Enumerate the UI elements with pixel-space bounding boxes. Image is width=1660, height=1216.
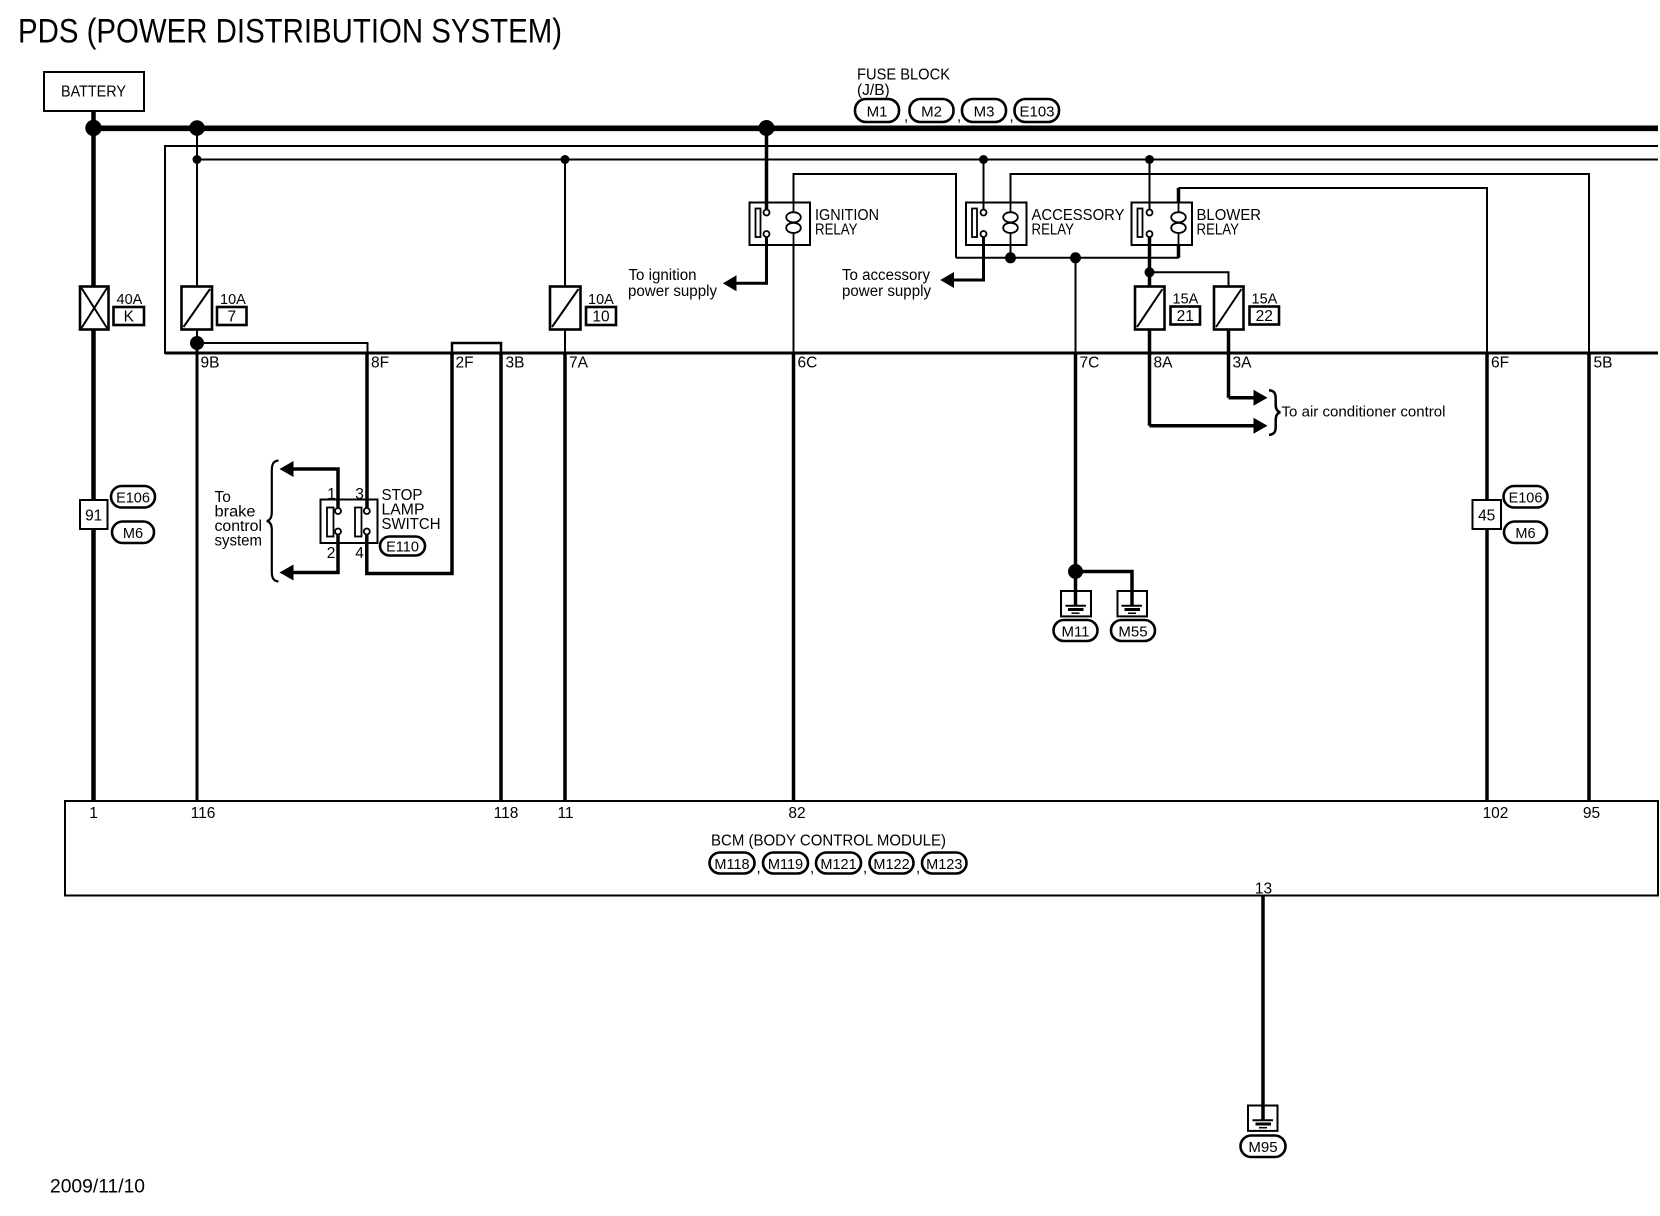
- svg-text:power supply: power supply: [842, 283, 931, 300]
- wire accessory coil bottom to ground line: [1010, 245, 1012, 258]
- brace brake control: [267, 461, 279, 582]
- wire inner line to accessory relay switch: [983, 160, 985, 210]
- svg-text:E103: E103: [1019, 104, 1054, 121]
- wire 8A to air conditioner: [1150, 424, 1256, 428]
- fuse 10 10A: [550, 287, 616, 330]
- wire inner line to blower relay switch: [1149, 160, 1151, 210]
- svg-text:,: ,: [1010, 108, 1014, 125]
- node inner line / fuse10 tap: [561, 155, 570, 164]
- ground M11: [1061, 591, 1091, 616]
- svg-text:M11: M11: [1061, 623, 1089, 640]
- node inner line / accessory relay tap: [979, 155, 988, 164]
- svg-text:To accessory: To accessory: [842, 267, 930, 284]
- svg-text:95: 95: [1583, 805, 1600, 822]
- svg-text:SWITCH: SWITCH: [382, 516, 441, 533]
- connector M55: [1111, 620, 1155, 641]
- wire bus to ignition relay switch: [765, 131, 769, 209]
- wire branch to fuse 22: [1150, 272, 1229, 286]
- connector M123: [916, 853, 967, 877]
- connector M6 (right): [1504, 522, 1547, 544]
- connector M3: [957, 99, 1006, 125]
- wire 2F-3B jumper staple: [452, 343, 501, 353]
- connector M2: [904, 99, 954, 125]
- fuse 22 15A: [1214, 287, 1279, 330]
- svg-text:13: 13: [1255, 881, 1272, 898]
- svg-text:10A: 10A: [588, 292, 614, 308]
- wire 7A column to BCM pin 11: [563, 353, 567, 801]
- svg-text:system: system: [215, 533, 263, 550]
- svg-text:6F: 6F: [1491, 355, 1509, 372]
- arrow to brake (top): [280, 461, 294, 477]
- arrow to ignition power supply: [723, 275, 737, 291]
- svg-text:RELAY: RELAY: [815, 222, 858, 239]
- wire 8A column: [1148, 330, 1152, 426]
- wire 9B column: [196, 343, 199, 801]
- svg-text:7: 7: [227, 309, 236, 326]
- connector E106 (right): [1504, 486, 1548, 508]
- svg-text:102: 102: [1483, 805, 1509, 822]
- svg-text:E106: E106: [116, 491, 150, 507]
- connector E110: [380, 537, 425, 556]
- svg-text:M123: M123: [926, 857, 962, 873]
- svg-text:,: ,: [957, 108, 961, 125]
- wire fuse 7 output: [196, 330, 198, 344]
- wire stop lamp pin 1 to brake system: [292, 469, 338, 508]
- connector M11: [1054, 620, 1098, 641]
- wire ignition switch output: [736, 237, 767, 283]
- fuse block box left edge: [164, 145, 166, 354]
- wire relay coil common (ground) line: [956, 257, 1179, 259]
- fuse block box top edge: [165, 145, 1658, 147]
- wire blower switch output to fuses: [1148, 237, 1152, 287]
- label stop lamp switch: [382, 487, 441, 533]
- svg-text:4: 4: [355, 545, 364, 562]
- svg-text:91: 91: [85, 508, 102, 525]
- svg-text:M122: M122: [873, 857, 909, 873]
- svg-text:(J/B): (J/B): [857, 82, 890, 99]
- svg-text:116: 116: [191, 805, 216, 822]
- node inner line start: [193, 155, 202, 164]
- svg-text:10: 10: [592, 309, 610, 326]
- connector M1: [855, 99, 899, 122]
- node fuse 21/22 feed split: [1145, 267, 1155, 277]
- node bus/ignition-relay junction: [759, 120, 775, 136]
- svg-text:,: ,: [904, 108, 908, 125]
- fuse 7 10A: [182, 287, 247, 330]
- svg-text:BCM (BODY CONTROL MODULE): BCM (BODY CONTROL MODULE): [711, 832, 946, 849]
- svg-text:5B: 5B: [1594, 355, 1613, 372]
- svg-text:,: ,: [863, 860, 867, 877]
- fuse block J/B label: [857, 67, 951, 100]
- svg-text:45: 45: [1478, 508, 1495, 525]
- svg-text:3B: 3B: [506, 355, 525, 372]
- connector pin 45 box: [1473, 500, 1502, 529]
- wire to ground M11: [1074, 572, 1078, 606]
- svg-text:BATTERY: BATTERY: [61, 84, 126, 101]
- wire fuse 10 output: [564, 330, 566, 354]
- connector M122: [863, 853, 914, 877]
- svg-text:40A: 40A: [117, 292, 143, 308]
- wire bus to fuse 7: [196, 131, 198, 287]
- relay BLOWER RELAY: [1132, 203, 1262, 246]
- wire 2F column: [367, 353, 452, 574]
- relay ACCESSORY RELAY: [966, 203, 1125, 246]
- label to ignition power supply: [628, 267, 717, 300]
- svg-text:To ignition: To ignition: [629, 267, 697, 284]
- svg-text:M3: M3: [974, 104, 995, 121]
- svg-text:15A: 15A: [1173, 292, 1199, 308]
- svg-text:3: 3: [355, 486, 364, 503]
- wire 7C (inside J/B): [1075, 258, 1077, 353]
- wire battery feed (vertical, battery to fusible link): [91, 111, 96, 287]
- wire battery feed (fusible link to 91): [91, 330, 96, 501]
- label to accessory power supply: [842, 267, 931, 300]
- svg-text:M121: M121: [820, 857, 856, 873]
- connector pin 91 box: [80, 500, 108, 529]
- wire accessory switch output: [953, 237, 984, 280]
- node accessory coil / ground line: [1005, 252, 1016, 263]
- svg-text:8F: 8F: [371, 355, 389, 372]
- wire 8F column: [365, 353, 369, 508]
- wire to ground M55: [1076, 572, 1133, 606]
- svg-text:9B: 9B: [201, 355, 220, 372]
- wire 7C column to grounds: [1074, 353, 1078, 572]
- svg-text:RELAY: RELAY: [1197, 222, 1240, 239]
- relay IGNITION RELAY: [750, 203, 880, 246]
- svg-text:,: ,: [810, 860, 814, 877]
- svg-text:7C: 7C: [1080, 355, 1100, 372]
- wire 6C column to BCM pin 82: [792, 353, 796, 801]
- svg-text:2: 2: [327, 545, 336, 562]
- svg-text:power supply: power supply: [628, 283, 717, 300]
- svg-text:M55: M55: [1118, 623, 1147, 640]
- svg-text:,: ,: [916, 860, 920, 877]
- svg-text:E110: E110: [386, 540, 419, 556]
- wire blower coil bottom to ground line: [1177, 245, 1181, 258]
- svg-text:10A: 10A: [220, 292, 246, 308]
- wire main battery bus: [90, 126, 1658, 132]
- svg-text:7A: 7A: [569, 355, 589, 372]
- node bus/fuse7 junction: [189, 120, 205, 136]
- wire 3A column: [1227, 330, 1231, 398]
- svg-text:M6: M6: [123, 526, 143, 542]
- wire 3B column to BCM pin 118: [499, 353, 503, 801]
- brace air conditioner: [1269, 390, 1280, 435]
- label to brake control system: [215, 489, 263, 550]
- node battery/bus junction: [85, 120, 101, 136]
- svg-text:118: 118: [494, 805, 519, 822]
- ground M95: [1248, 1106, 1278, 1131]
- svg-text:M95: M95: [1248, 1139, 1277, 1156]
- BCM box: [65, 801, 1658, 896]
- node ground split: [1068, 564, 1083, 579]
- svg-text:M2: M2: [921, 104, 942, 121]
- svg-text:22: 22: [1256, 308, 1273, 325]
- svg-text:FUSE BLOCK: FUSE BLOCK: [857, 67, 951, 84]
- wire blower coil top to 6F: [1177, 188, 1181, 204]
- fuse block box bottom edge: [165, 352, 1658, 355]
- ground M55: [1118, 591, 1148, 616]
- connector E103: [1010, 99, 1060, 125]
- wire accessory coil top to 5B: [1011, 174, 1590, 353]
- wire 5B column to BCM pin 95: [1587, 353, 1591, 801]
- node 7C tap: [1070, 252, 1081, 263]
- fuse 21 15A: [1135, 287, 1200, 330]
- svg-text:PDS (POWER DISTRIBUTION SYSTEM: PDS (POWER DISTRIBUTION SYSTEM): [18, 13, 562, 51]
- svg-text:To air conditioner control: To air conditioner control: [1282, 403, 1446, 420]
- svg-text:M119: M119: [768, 857, 803, 873]
- svg-text:2F: 2F: [456, 355, 474, 372]
- connector M6 (left): [112, 522, 154, 544]
- connector M95: [1241, 1136, 1286, 1158]
- connector M121: [810, 853, 861, 877]
- svg-text:11: 11: [557, 805, 573, 822]
- connector E106 (left): [111, 486, 155, 508]
- svg-text:3A: 3A: [1233, 355, 1253, 372]
- svg-text:21: 21: [1177, 308, 1194, 325]
- svg-text:6C: 6C: [798, 355, 818, 372]
- svg-text:15A: 15A: [1252, 292, 1278, 308]
- wire branch to 8F: [197, 343, 368, 353]
- svg-text:2009/11/10: 2009/11/10: [50, 1175, 145, 1197]
- wire ignition coil to ground line: [794, 174, 957, 258]
- arrow to accessory power supply: [940, 272, 954, 288]
- svg-text:M1: M1: [867, 104, 888, 121]
- wire inner line to fuse 10: [564, 160, 566, 287]
- svg-text:82: 82: [788, 805, 805, 822]
- svg-text:K: K: [124, 309, 135, 326]
- stop lamp switch: [321, 500, 378, 544]
- battery B1: [44, 72, 144, 111]
- wire inner distribution line: [197, 159, 1658, 161]
- wire stop lamp pin 2 to brake system: [292, 535, 338, 573]
- wire BCM pin 13 to ground M95: [1261, 896, 1265, 1121]
- svg-text:1: 1: [89, 805, 98, 822]
- node fuse 7 output split: [190, 336, 204, 350]
- node inner line / blower relay tap: [1145, 155, 1154, 164]
- svg-text:M118: M118: [714, 857, 749, 873]
- wire 6F column (45 to BCM pin 102): [1485, 529, 1489, 801]
- wire battery feed (91 to BCM pin 1): [91, 529, 96, 801]
- fusible link 40A K: [80, 287, 144, 330]
- svg-text:1: 1: [327, 486, 336, 503]
- svg-text:8A: 8A: [1154, 355, 1174, 372]
- wire 6F column (J/B to 45): [1485, 353, 1489, 500]
- arrow to air conditioner (bottom): [1254, 418, 1268, 434]
- svg-text:RELAY: RELAY: [1032, 222, 1075, 239]
- svg-text:E106: E106: [1509, 491, 1543, 507]
- connector M118: [710, 853, 755, 874]
- svg-text:M6: M6: [1515, 526, 1535, 542]
- arrow to brake (bottom): [280, 565, 294, 581]
- wire 3A to air conditioner: [1229, 396, 1256, 400]
- wire 6C ignition coil to BCM (inside J/B): [793, 245, 795, 353]
- arrow to air conditioner (top): [1254, 390, 1268, 406]
- svg-text:,: ,: [757, 860, 761, 877]
- connector M119: [757, 853, 809, 877]
